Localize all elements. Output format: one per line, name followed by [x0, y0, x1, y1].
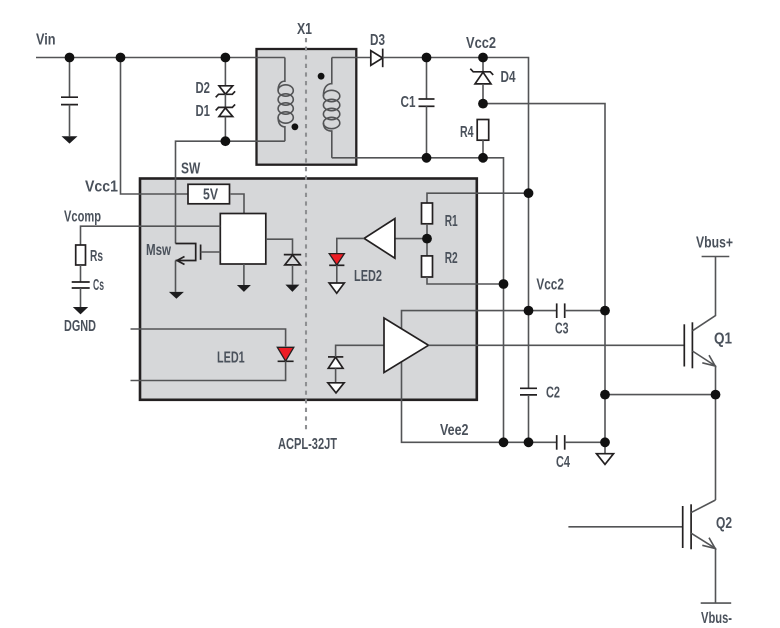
wire photodiode node to driver input: [336, 345, 384, 357]
junction Q1 emitter: [711, 390, 721, 400]
svg-text:Msw: Msw: [146, 242, 172, 259]
wire 5V to control box: [231, 194, 244, 214]
X1 isolation dashed line: [305, 38, 307, 433]
svg-text:LED1: LED1: [217, 350, 245, 367]
wire Vcc1 branch: [121, 58, 189, 195]
op-amp buffer (left-pointing): [364, 219, 395, 259]
resistor R1: [422, 203, 433, 256]
ground DGND: [73, 307, 88, 314]
junction emitter rail left: [600, 390, 610, 400]
wire Msw gate: [201, 251, 221, 253]
junction Vcc2/D4: [478, 53, 488, 63]
LED2: [329, 254, 344, 283]
wire secondary bottom rail to Vee vertical: [332, 158, 504, 443]
wire photodiode to open arrow: [335, 368, 337, 383]
wire Vee2 rail with C4: [504, 441, 557, 443]
ground open triangle: [597, 454, 614, 465]
wire driver Vcc pin to C3 rail: [402, 311, 529, 330]
wire Vcc2 vertical to C2: [528, 193, 530, 388]
capacitor C1: [419, 58, 435, 158]
junction R1/R2 divider: [422, 234, 432, 244]
wire control box right to clamp diode: [266, 239, 293, 254]
svg-text:X1: X1: [297, 21, 312, 38]
junction C3 left: [524, 306, 534, 316]
svg-text:Vin: Vin: [36, 32, 56, 49]
wire Vcc2 top rail: [383, 58, 529, 194]
svg-text:DGND: DGND: [64, 318, 96, 335]
transistor Q2 (IGBT): [683, 500, 716, 603]
ground clamp diode: [285, 285, 299, 292]
svg-text:C4: C4: [556, 454, 570, 471]
svg-text:R4: R4: [460, 124, 474, 141]
svg-text:Cs: Cs: [93, 277, 104, 294]
transformer X1 body: [257, 49, 357, 165]
capacitor Cs: [72, 282, 90, 307]
op-amp U1 ACPL-32JT body: [140, 179, 477, 400]
wire R1 top to Vcc2: [427, 193, 529, 203]
wire right vertical C3 to ground: [604, 311, 606, 443]
wire driver output / Q1 gate rail: [429, 344, 685, 346]
junction R1 top rail: [524, 188, 534, 198]
svg-text:Vcomp: Vcomp: [64, 209, 101, 226]
svg-text:C2: C2: [546, 385, 560, 402]
junction C4 right: [600, 437, 610, 447]
photodiode stack bar: [328, 356, 343, 358]
svg-text:Vcc2: Vcc2: [536, 277, 564, 294]
svg-text:R2: R2: [445, 250, 458, 267]
diode clamp (control box right): [284, 255, 301, 285]
wire right vertical stub to open ground: [604, 442, 606, 453]
wire control box bottom: [243, 264, 245, 285]
diode D1: [216, 104, 235, 116]
wire Vin rail: [36, 57, 285, 59]
diode D2: [216, 86, 235, 98]
control box: [220, 214, 265, 265]
junction Vin/Vcc1: [116, 53, 126, 63]
wire divider node to buffer input: [395, 238, 427, 240]
ground control box: [237, 285, 251, 292]
junction C1 top: [422, 53, 432, 63]
svg-text:D3: D3: [370, 32, 385, 49]
svg-text:Vee2: Vee2: [440, 422, 469, 439]
wire D1 to SW rail: [224, 117, 226, 142]
LED1: [277, 347, 294, 361]
svg-text:5V: 5V: [203, 187, 219, 204]
ground input cap: [62, 136, 78, 143]
wire LED1 cathode pin: [131, 361, 286, 380]
svg-text:Q2: Q2: [716, 515, 732, 532]
wire Q1 emitter to Q2 collector: [715, 395, 717, 500]
resistor R2: [422, 256, 433, 277]
svg-text:Vbus+: Vbus+: [696, 235, 733, 252]
svg-text:C1: C1: [401, 94, 416, 111]
svg-text:ACPL-32JT: ACPL-32JT: [278, 436, 337, 453]
diode D3: [371, 49, 383, 68]
photodiode (apex up): [328, 357, 343, 368]
junction R4 bottom: [478, 153, 488, 163]
junction C1 bottom: [422, 153, 432, 163]
junction Vin/cap: [65, 53, 75, 63]
capacitor C3: [529, 303, 606, 318]
wire D2/D1 branch: [224, 58, 226, 86]
svg-text:D2: D2: [196, 80, 211, 97]
op-amp driver (right-pointing): [384, 318, 429, 373]
transformer primary phase dot: [292, 123, 299, 130]
junction Vee2/C2: [524, 437, 534, 447]
svg-text:Q1: Q1: [714, 331, 732, 348]
transformer primary winding: [278, 58, 293, 142]
junction SW/D1: [221, 136, 231, 146]
capacitor C2: [520, 388, 537, 442]
svg-text:D4: D4: [501, 69, 516, 86]
open arrow below LED2: [329, 283, 344, 293]
junction Vee2/R2 vertical: [499, 437, 509, 447]
resistor Rs: [76, 245, 86, 282]
wire D4 node to right vertical: [483, 104, 605, 311]
wire D2-D1: [224, 94, 226, 107]
wire secondary top to D3: [332, 57, 371, 59]
wire buffer output to LED2: [337, 238, 364, 253]
junction C3 right: [600, 306, 610, 316]
wire Vcomp: [81, 226, 221, 245]
svg-text:D1: D1: [196, 103, 211, 120]
svg-text:C3: C3: [555, 321, 569, 338]
svg-text:Vcc1: Vcc1: [85, 179, 118, 196]
transistor Q1 (IGBT): [684, 257, 715, 395]
open arrow below photodiode: [328, 383, 344, 393]
power Vbus- bar: [701, 602, 732, 604]
transformer secondary winding: [323, 58, 339, 158]
svg-text:SW: SW: [181, 161, 200, 178]
junction Vin/D2: [221, 53, 231, 63]
capacitor C4: [557, 435, 605, 450]
regulator 5V box: [188, 184, 230, 204]
junction D4/R4: [478, 99, 488, 109]
diode D4 (zener): [470, 58, 493, 104]
svg-text:Vbus-: Vbus-: [701, 610, 732, 627]
svg-text:R1: R1: [445, 213, 458, 230]
wire driver Vee pin to Vee2 rail: [402, 360, 504, 442]
resistor R4: [477, 120, 489, 158]
transistor Msw (NMOS): [176, 244, 201, 292]
svg-text:LED2: LED2: [354, 268, 382, 285]
ground Msw source: [169, 292, 184, 299]
wire Q2 gate stub: [568, 526, 682, 528]
junction R2 bottom: [499, 279, 509, 289]
wire LED1 anode pin: [131, 329, 286, 346]
capacitor input (unlabeled): [61, 58, 78, 137]
power Vbus+ bar: [702, 256, 730, 258]
svg-text:Rs: Rs: [90, 248, 103, 265]
wire emitter rail: [605, 394, 716, 396]
wire R2 bottom to Vee vertical: [427, 277, 504, 284]
wire SW rail (primary bottom to Msw drain): [176, 141, 285, 243]
transformer secondary phase dot: [318, 73, 325, 80]
svg-text:Vcc2: Vcc2: [466, 35, 496, 52]
